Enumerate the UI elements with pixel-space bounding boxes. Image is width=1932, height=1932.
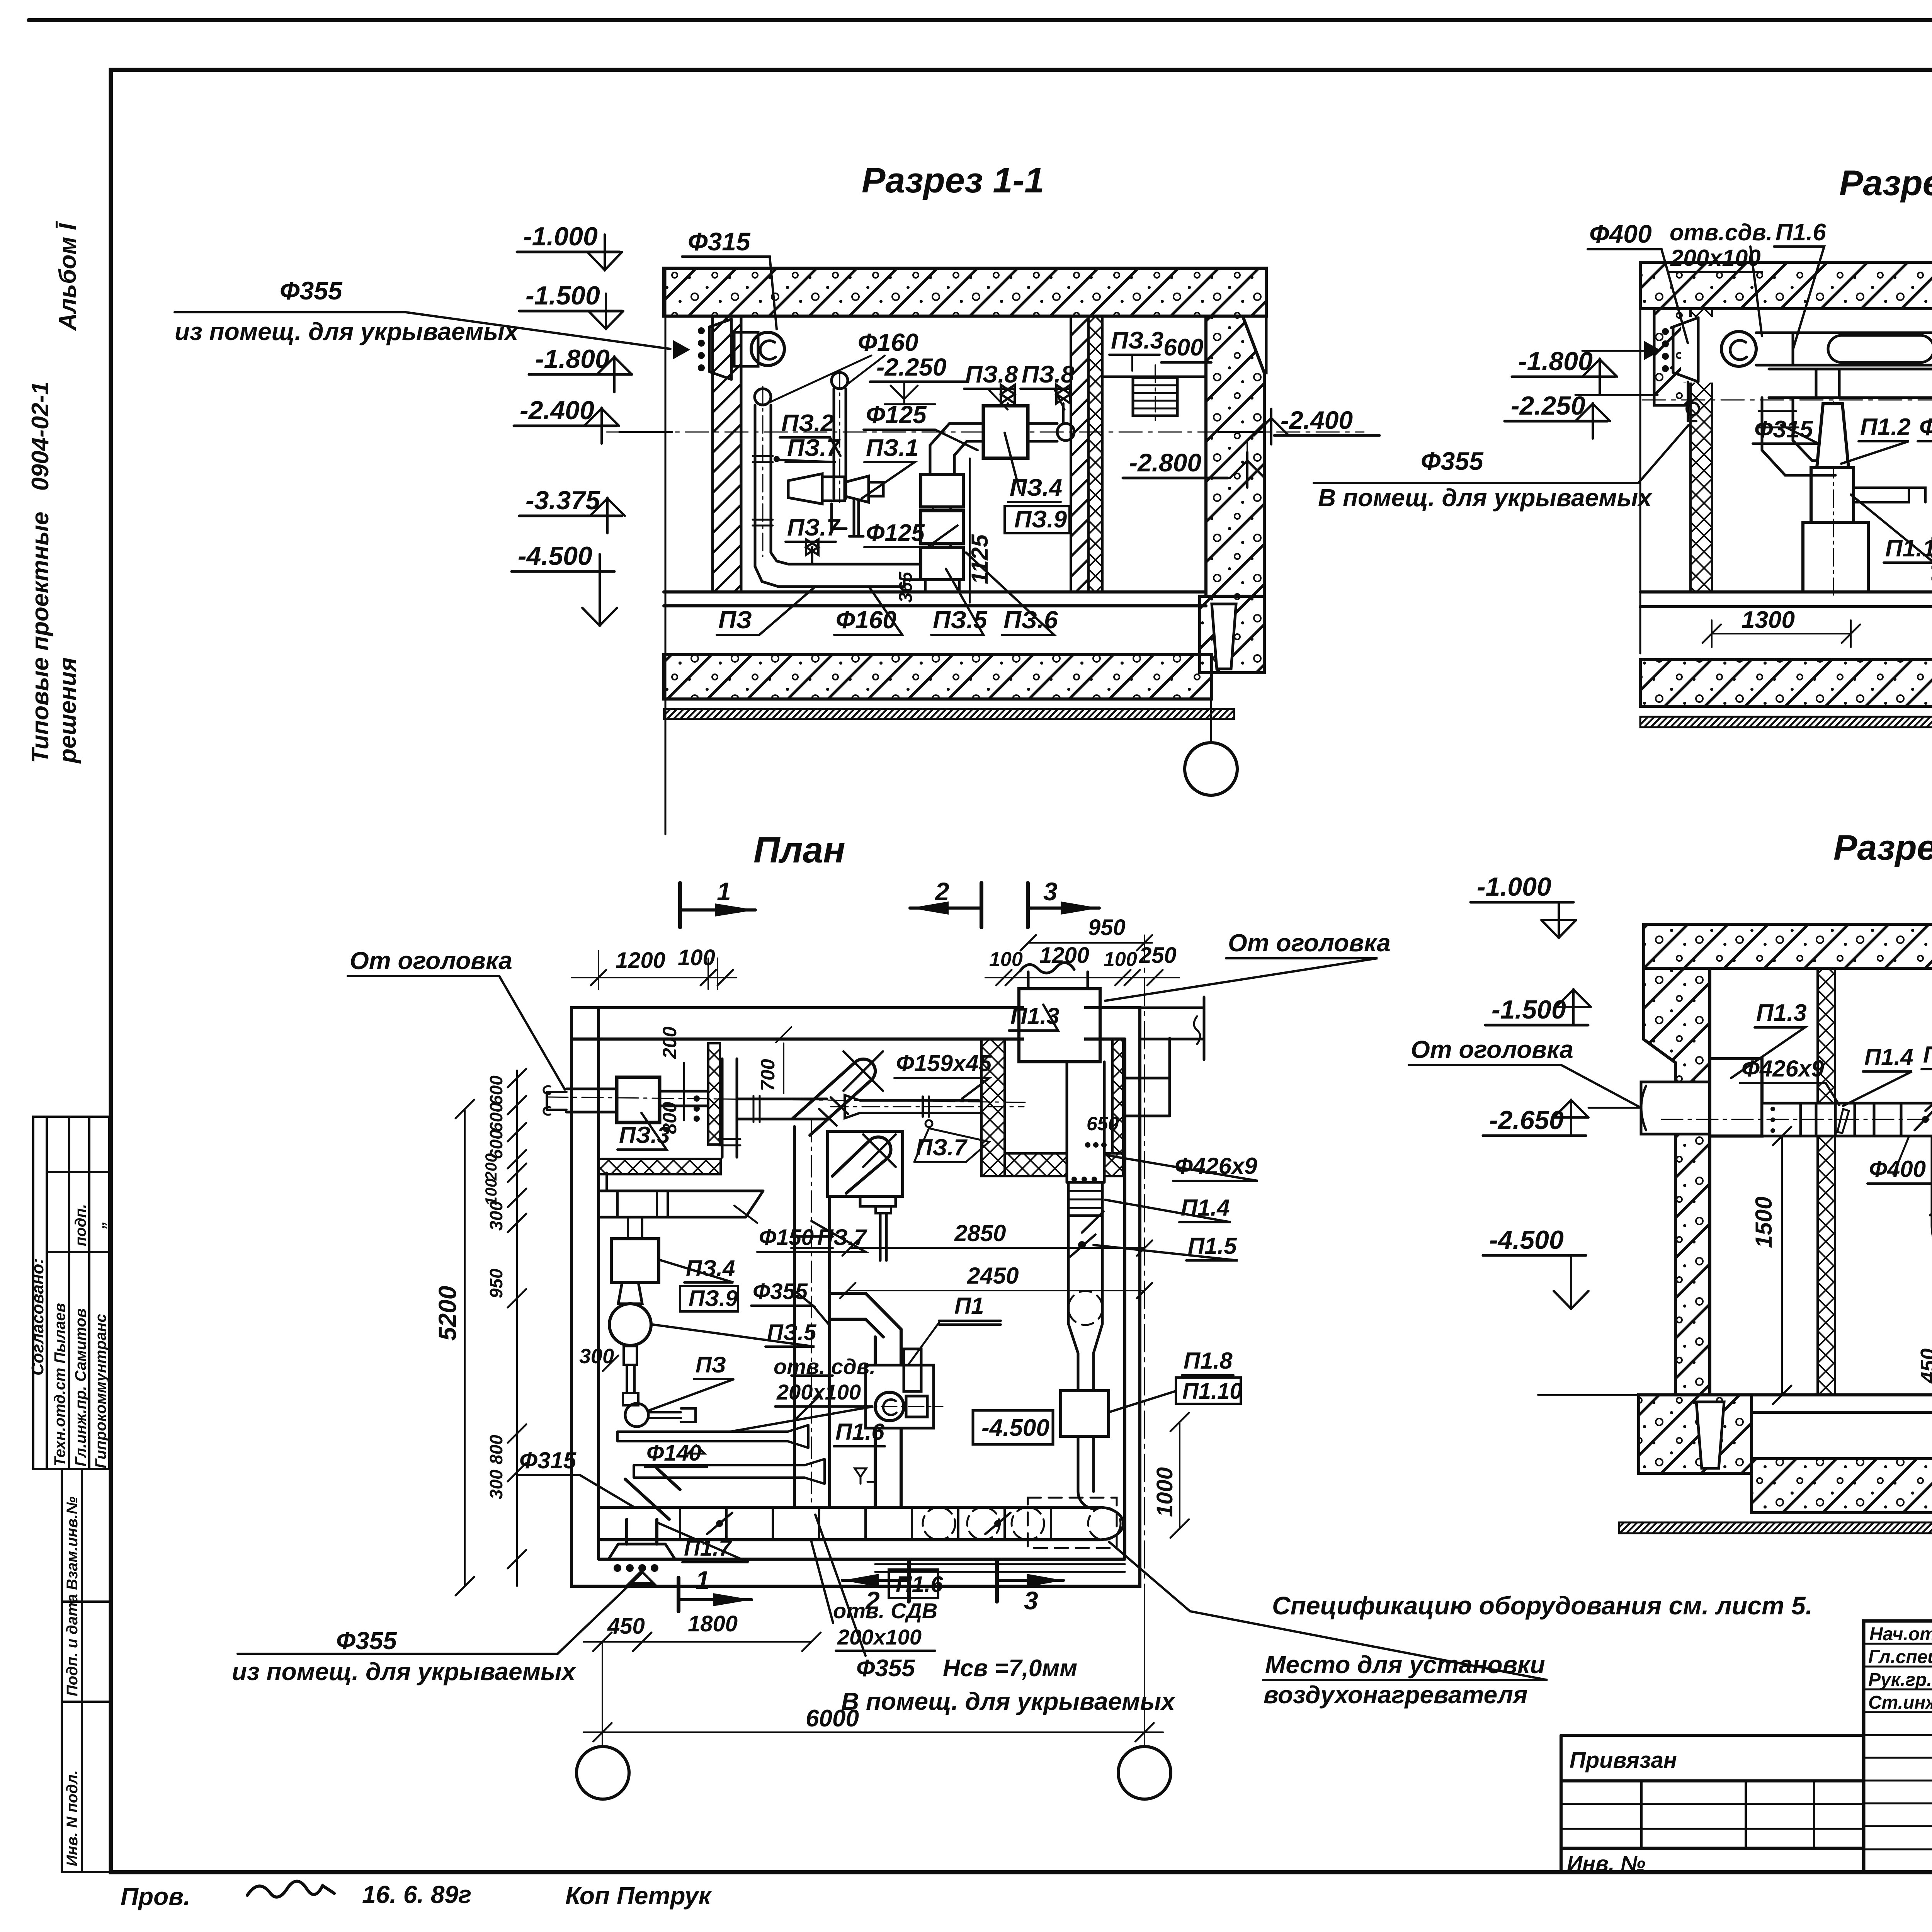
svg-text:Гипрокоммунтранс: Гипрокоммунтранс: [92, 1314, 109, 1468]
svg-text:П1.5: П1.5: [1923, 1042, 1932, 1068]
dim 365 vertical: [896, 571, 916, 603]
room floor lines: [1640, 592, 1932, 607]
label Ф140: [645, 1440, 707, 1467]
bottom label Ф160: [834, 587, 902, 635]
svg-text:Ф400: Ф400: [1589, 219, 1652, 248]
break squiggle top wall end: [1194, 1016, 1200, 1044]
svg-text:1800: 1800: [688, 1611, 738, 1636]
dim line top-right 100 1200 100 250: [985, 943, 1179, 985]
level -1.500 s33: [1485, 989, 1591, 1025]
П1.3 unit top right: [1019, 963, 1100, 1062]
label П1: [909, 1293, 1001, 1364]
svg-text:решения: решения: [54, 657, 81, 764]
svg-text:подп.: подп.: [72, 1204, 89, 1246]
top wall opening for head duct: [1024, 1004, 1084, 1043]
svg-text:-2.250: -2.250: [876, 353, 946, 381]
label П1.8 П1.10 plan: [1109, 1348, 1242, 1412]
svg-text:Ф400: Ф400: [1869, 1156, 1926, 1182]
vertical exhaust pipe 1: [753, 389, 889, 587]
svg-text:П1.4: П1.4: [1864, 1044, 1913, 1070]
bottom slab: [1640, 660, 1932, 706]
svg-text:Привязан: Привязан: [1570, 1748, 1677, 1773]
svg-text:Инв. №: Инв. №: [1567, 1851, 1645, 1876]
svg-text:Взам.инв.№: Взам.инв.№: [64, 1497, 81, 1590]
svg-text:Пров.: Пров.: [121, 1883, 190, 1910]
label ПЗ.9 boxed: [1005, 506, 1070, 533]
left boundary cut line: [665, 268, 667, 834]
svg-text:Ф160: Ф160: [836, 606, 896, 634]
intake louver: [674, 319, 731, 379]
svg-text:Ф160: Ф160: [858, 328, 918, 356]
svg-text:ПЗ.8: ПЗ.8: [1022, 361, 1075, 388]
svg-text:П1.6: П1.6: [896, 1572, 943, 1597]
svg-text:П1.7: П1.7: [684, 1536, 732, 1561]
svg-text:ПЗ.3: ПЗ.3: [1111, 327, 1163, 354]
svg-text:-1.800: -1.800: [535, 344, 610, 374]
svg-text:1200: 1200: [616, 948, 665, 973]
duct from stack to heater: [930, 423, 983, 474]
label Ф355 mid: [1918, 414, 1932, 441]
label От оголовка right: [1105, 929, 1391, 1001]
svg-text:200: 200: [482, 1153, 500, 1181]
svg-text:1125: 1125: [967, 534, 993, 584]
svg-text:П1.10: П1.10: [1182, 1379, 1242, 1404]
label отв.СДВ 200х100 bottom: [811, 1542, 937, 1651]
plan outer wall rect: [571, 1008, 1140, 1586]
svg-text:2: 2: [934, 877, 949, 906]
round duct section dashed: [1068, 1291, 1102, 1325]
valve ПЗ.8 left: [1001, 385, 1015, 406]
level -2.250: [870, 353, 968, 404]
svg-text:ПЗ: ПЗ: [718, 606, 752, 634]
main duct F355: [1756, 333, 1932, 396]
label ПЗ.8: [964, 361, 1018, 410]
label ПЗ.5 plan: [653, 1320, 816, 1347]
отв.сдв thin duct: [617, 1425, 808, 1454]
top-left partition vertical: [708, 1043, 720, 1145]
svg-text:ПЗ.7: ПЗ.7: [787, 514, 841, 541]
svg-text:-4.500: -4.500: [1489, 1225, 1564, 1255]
plan inner wall lines: [571, 1008, 1125, 1559]
label ПЗ.4 ПЗ.9 plan: [659, 1256, 738, 1311]
П1 unit assembly: [830, 1293, 943, 1507]
bottom duct run: [599, 1507, 1123, 1540]
svg-text:ПЗ.7: ПЗ.7: [787, 435, 841, 461]
svg-text:План: План: [753, 830, 845, 871]
svg-text:-2.800: -2.800: [1129, 448, 1201, 477]
label Ф150 ПЗ.7: [734, 1206, 867, 1252]
partition cross-hatched: [1818, 968, 1835, 1395]
svg-text:16. 6. 89г: 16. 6. 89г: [362, 1881, 471, 1908]
level -4.500: [512, 541, 617, 626]
label Ф355 из помещ bottom: [232, 1573, 641, 1685]
svg-text:0904-02-1: 0904-02-1: [27, 381, 54, 491]
Ф159х45 thin pipe: [831, 1095, 1024, 1127]
footing pit slot: [1696, 1402, 1724, 1468]
svg-text:ПЗ.4: ПЗ.4: [686, 1256, 735, 1281]
dim 1125 vertical: [1927, 485, 1932, 607]
main vertical duct Ф355: [791, 1121, 833, 1507]
label От оголовка left: [348, 947, 565, 1090]
valve slashes on ducts: [707, 1211, 1104, 1534]
svg-text:Место для установки: Место для установки: [1265, 1651, 1545, 1679]
section mark 1 bottom: [679, 1566, 752, 1611]
svg-text:950: 950: [486, 1269, 506, 1298]
svg-text:ПЗ.1: ПЗ.1: [866, 435, 918, 461]
svg-text:ПЗ.9: ПЗ.9: [689, 1286, 738, 1311]
svg-text:-1.000: -1.000: [523, 222, 598, 251]
svg-text:450: 450: [1917, 1349, 1932, 1384]
label Ф125 lower: [864, 520, 957, 547]
svg-text:П1.6: П1.6: [1776, 219, 1826, 246]
svg-text:-4.500: -4.500: [981, 1415, 1049, 1441]
svg-text:Согласовано:: Согласовано:: [28, 1258, 47, 1376]
label отв.сдв 200x100: [1669, 219, 1772, 336]
pipe heater to wall: [1028, 423, 1057, 441]
left boundary cut line: [1639, 262, 1641, 653]
svg-text:Нсв =7,0мм: Нсв =7,0мм: [943, 1655, 1077, 1682]
bottom dim 6000: [583, 1586, 1163, 1746]
end valve circle: [1057, 423, 1074, 440]
svg-text:Ст.инж.: Ст.инж.: [1868, 1692, 1932, 1713]
svg-text:из помещ. для укрываемых: из помещ. для укрываемых: [175, 318, 519, 345]
level -1.800 left: [1512, 347, 1652, 394]
bottom label ПЗ.6: [966, 553, 1058, 635]
dim 2850: [842, 1220, 1152, 1256]
ceiling slab: [1640, 262, 1932, 309]
svg-text:-1.500: -1.500: [1492, 995, 1566, 1024]
svg-text:800: 800: [486, 1435, 506, 1464]
dim 1300: [1702, 607, 1860, 647]
label Ф426х9: [1107, 1153, 1258, 1181]
svg-text:Ф140: Ф140: [646, 1440, 701, 1466]
label Ф160: [769, 328, 918, 403]
П1.8 П1.10 unit: [1061, 1391, 1109, 1436]
label П1.3 s33: [1731, 1000, 1807, 1078]
П1.5 duct with damper: [1068, 1216, 1102, 1291]
svg-text:3: 3: [1024, 1586, 1038, 1615]
dim line top-right 950: [1020, 915, 1152, 951]
П1.4 grille section: [1068, 1182, 1102, 1216]
heater ПЗ.4: [983, 406, 1028, 458]
svg-text:отв. сдв.: отв. сдв.: [774, 1354, 876, 1379]
ПЗ vertical duct beside partition: [719, 1059, 740, 1157]
level -2.400 left: [514, 396, 672, 444]
air regulator ПЗ.1 assembly: [788, 474, 883, 536]
grille room ceiling step: [1102, 376, 1206, 378]
dim 1125 vertical: [967, 458, 993, 603]
level -2.400 right: [1218, 406, 1379, 444]
top-left partition cross-hatched: [599, 1159, 721, 1174]
room floor lines: [664, 592, 1206, 606]
top wall cantilever: [1140, 997, 1204, 1060]
intake louver: [1645, 317, 1716, 421]
label Ф426х9 s33: [1740, 1056, 1839, 1105]
left sidebar table lower: [62, 1469, 111, 1872]
lower loop ducts: [1930, 1136, 1932, 1260]
fan axis dash lines: [1833, 402, 1932, 595]
svg-text:1300: 1300: [1742, 607, 1795, 633]
labels Ф400 Ф250 mid: [1867, 1137, 1932, 1229]
top-right partition horizontal segs: [1005, 1153, 1067, 1176]
partition insulation strip: [1088, 316, 1102, 592]
left wall with haunch: [1644, 968, 1710, 1395]
svg-text:800: 800: [659, 1102, 680, 1134]
label Ф400: [1588, 219, 1688, 343]
label П1.6: [1774, 219, 1826, 350]
label Ф159х45: [895, 1050, 992, 1099]
dim 1500 vertical: [1751, 1127, 1791, 1404]
ceiling slab: [1644, 924, 1932, 968]
label отв.сдв 200х100 upper: [730, 1354, 876, 1432]
svg-text:Инв. N подл.: Инв. N подл.: [64, 1770, 81, 1866]
П2 fan unit square: [828, 1131, 903, 1260]
label П1.3 plan: [1009, 1003, 1060, 1031]
section mark 1 top: [680, 877, 755, 927]
label Ф315: [1753, 416, 1818, 444]
svg-text:Ф315: Ф315: [1754, 416, 1813, 443]
svg-text:Гл.спец.: Гл.спец.: [1868, 1647, 1932, 1667]
svg-text:Разрез 2-2: Разрез 2-2: [1839, 163, 1932, 203]
bottom thin screed band: [1619, 1522, 1932, 1533]
svg-text:2450: 2450: [967, 1263, 1019, 1289]
svg-text:1125: 1125: [1927, 537, 1932, 587]
bottom slab: [1752, 1459, 1932, 1513]
level -2.650 s33: [1483, 1100, 1641, 1136]
label Ф355 в помещ: [1314, 425, 1689, 512]
labels П1.4 П1.5 П1.9 row: [1843, 1044, 1913, 1106]
dashed service rect: [1028, 1498, 1117, 1548]
label П1.5 plan: [1094, 1233, 1238, 1260]
svg-text:200х100: 200х100: [837, 1625, 922, 1649]
level -1.000: [517, 222, 622, 270]
svg-text:ПЗ.9: ПЗ.9: [1014, 506, 1067, 533]
label Ф355 Нсв bottom: [815, 1515, 1176, 1715]
section mark 3 bottom: [997, 1561, 1063, 1615]
От оголовка intake through wall: [1641, 1082, 1710, 1134]
svg-text:Рук.гр.: Рук.гр.: [1868, 1670, 1932, 1690]
level -1.000 s33: [1471, 872, 1576, 938]
svg-text:200х100: 200х100: [1670, 245, 1761, 271]
bottom dims 450 1800: [583, 1611, 821, 1651]
svg-text:В помещ. для укрываемых: В помещ. для укрываемых: [1318, 484, 1653, 512]
svg-text:Ф355: Ф355: [336, 1627, 397, 1655]
label ПЗ.7 lower: [786, 514, 841, 542]
label ПЗ.2: [780, 410, 840, 456]
svg-text:Ф315: Ф315: [519, 1447, 577, 1473]
section mark 2 bottom: [842, 1561, 909, 1615]
svg-text:1000: 1000: [1152, 1467, 1177, 1517]
svg-text:Ф355: Ф355: [280, 276, 343, 305]
dim 1000 vertical right: [1152, 1413, 1189, 1538]
bottom thin screed band: [664, 709, 1234, 719]
label Ф355 из помещ.: [175, 276, 670, 349]
svg-text:Альбом Ī: Альбом Ī: [54, 221, 81, 331]
svg-text:100: 100: [678, 945, 715, 970]
svg-text:450: 450: [607, 1614, 645, 1639]
duct unit to partition: [660, 1091, 707, 1122]
left dim chain 5200: [434, 1100, 474, 1595]
label Ф315 plan: [518, 1447, 634, 1507]
svg-text:700: 700: [757, 1059, 779, 1091]
label ПЗ.7 near pipe: [914, 1128, 989, 1162]
svg-text:-3.375: -3.375: [526, 486, 600, 515]
middle partition: [1071, 316, 1088, 592]
svg-text:-2.650: -2.650: [1489, 1105, 1564, 1135]
svg-text:-2.400: -2.400: [1281, 406, 1353, 434]
transition cone: [1068, 1324, 1102, 1391]
lower thin rail: [875, 1564, 1125, 1572]
svg-text:950: 950: [1088, 915, 1126, 940]
fan at ceiling: [1721, 332, 1756, 366]
svg-text:Ф125: Ф125: [866, 520, 925, 546]
left margin rotated titles: [27, 221, 81, 764]
label ПЗ.7: [777, 435, 841, 462]
horizontal duct run: [1762, 1103, 1932, 1136]
horizontal duct to diagonal: [737, 1096, 827, 1122]
svg-text:Коп Петрук: Коп Петрук: [565, 1882, 712, 1910]
column axis right: [1144, 935, 1145, 1746]
label ПЗ.4: [1005, 433, 1062, 502]
horizontal centerline: [607, 432, 1364, 433]
svg-text:Разрез 3-3: Разрез 3-3: [1833, 828, 1932, 867]
svg-text:Подп. и дата: Подп. и дата: [64, 1594, 81, 1696]
ПЗ.3 silencer unit: [617, 1077, 660, 1122]
valve on bottom duct: [806, 539, 818, 564]
Ф426х9 duct down: [1067, 1062, 1104, 1182]
label 650: [1085, 1113, 1119, 1148]
svg-text:Ф355: Ф355: [856, 1655, 915, 1682]
labels: От оголовка: [1409, 1036, 1641, 1108]
bottom label ПЗ: [717, 587, 815, 635]
level -2.250 left: [1505, 391, 1658, 439]
label Ф355 plan: [751, 1279, 830, 1325]
svg-text:Типовые проектные: Типовые проектные: [27, 512, 54, 763]
column axis line and bubble: [1185, 673, 1237, 795]
П1.3 unit: [1710, 1059, 1762, 1136]
rotated dims 200 800 700 top-left: [659, 1026, 791, 1134]
svg-text:П1.6: П1.6: [835, 1419, 884, 1445]
svg-text:1500: 1500: [1751, 1197, 1777, 1248]
label ПЗ plan: [649, 1352, 734, 1410]
svg-text:П1.1: П1.1: [1885, 535, 1932, 562]
left string: Ф150 duct: [599, 1173, 763, 1217]
svg-text:Ф159х45: Ф159х45: [896, 1050, 992, 1076]
svg-text:из помещ. для укрываемых: из помещ. для укрываемых: [232, 1658, 577, 1685]
dim 2450: [840, 1263, 1152, 1298]
ПЗ.3 intake duct through wall: [544, 1086, 617, 1115]
note место для установки: [1109, 1542, 1548, 1709]
column bubble right: [1118, 1747, 1171, 1799]
right wall: [1206, 316, 1264, 596]
svg-text:300: 300: [486, 1201, 506, 1231]
wall grille ПЗ.3: [1133, 367, 1177, 425]
bottom thin screed band: [1640, 717, 1932, 727]
label П1.2: [1841, 414, 1911, 464]
bottom slab: [664, 655, 1212, 699]
svg-text:-1.000: -1.000: [1477, 872, 1551, 901]
bottom-left elbow and bell П1.7: [609, 1468, 680, 1583]
staff table: [1864, 1621, 1932, 1872]
fan ПЗ: [734, 332, 784, 366]
left upper wall block: [1654, 309, 1690, 405]
label ПЗ.3 and 600: [1109, 327, 1211, 379]
svg-text:1: 1: [717, 877, 731, 906]
svg-text:П1.8: П1.8: [1184, 1348, 1233, 1374]
svg-text:отв.сдв.: отв.сдв.: [1670, 219, 1772, 245]
level -3.375: [519, 486, 625, 533]
svg-text:ПЗ.8: ПЗ.8: [965, 361, 1018, 388]
svg-text:1: 1: [696, 1566, 710, 1594]
Ф140 thin duct: [634, 1459, 825, 1484]
svg-text:Техн.отд.ст Пылаев: Техн.отд.ст Пылаев: [51, 1303, 68, 1466]
left wall: [713, 316, 741, 592]
svg-text:Ф355: Ф355: [753, 1279, 808, 1304]
top-right partition vertical: [981, 1039, 1005, 1176]
svg-text:Ф125: Ф125: [866, 401, 927, 429]
svg-text:П1.3: П1.3: [1756, 1000, 1807, 1026]
svg-text:600: 600: [486, 1102, 506, 1132]
svg-text:Ф426х9: Ф426х9: [1742, 1056, 1824, 1082]
label ПЗ.8 b: [1020, 361, 1075, 410]
svg-text:-4.500: -4.500: [518, 541, 592, 571]
left vertical duct with elbows: [1757, 398, 1835, 475]
level -2.800: [1123, 440, 1265, 488]
svg-text:От оголовка: От оголовка: [1228, 929, 1391, 957]
svg-text:воздухонагревателя: воздухонагревателя: [1264, 1681, 1527, 1709]
label ПЗ.3 plan: [617, 1113, 670, 1150]
svg-text:3: 3: [1043, 877, 1058, 906]
vertical pipe 2: [832, 372, 848, 498]
svg-text:200: 200: [659, 1026, 680, 1059]
svg-text:Разрез 1-1: Разрез 1-1: [862, 161, 1044, 200]
column bubble left: [577, 1747, 629, 1799]
svg-text:Гл.инж.пр. Самитов: Гл.инж.пр. Самитов: [72, 1308, 89, 1466]
left wall footing: [1639, 1395, 1752, 1473]
left sidebar table upper: [28, 1117, 109, 1469]
svg-text:В помещ. для укрываемых: В помещ. для укрываемых: [841, 1687, 1176, 1715]
left dim chain detail: [482, 1069, 526, 1586]
axis dash-dot through ПЗ.3: [547, 1097, 1028, 1102]
svg-text:От оголовка: От оголовка: [350, 947, 512, 975]
svg-text:Ф150: Ф150: [759, 1225, 814, 1250]
valve ПЗ.8 right: [1056, 385, 1070, 423]
diagonal duct with round cap: [793, 1051, 883, 1135]
label ПЗ.1: [862, 435, 918, 498]
svg-text:Ф355: Ф355: [1421, 447, 1484, 475]
ПЗ.4 ПЗ.9 box plan: [611, 1239, 659, 1282]
svg-text:2850: 2850: [954, 1220, 1006, 1246]
bottom label ПЗ.5: [931, 569, 988, 635]
svg-text:От оголовка: От оголовка: [1411, 1036, 1573, 1063]
svg-text:ПЗ: ПЗ: [696, 1352, 726, 1378]
label Ф315: [682, 227, 777, 329]
filter stack ПЗ.5 ПЗ.6: [889, 474, 963, 592]
section mark 3 top: [1028, 877, 1099, 927]
svg-text:200х100: 200х100: [776, 1380, 861, 1404]
svg-text:600: 600: [1163, 334, 1203, 361]
alcove shaft lines: [1123, 1038, 1170, 1116]
label Ф125: [864, 401, 978, 450]
svg-text:100: 100: [1104, 948, 1137, 971]
right wall slab step: [1243, 316, 1266, 373]
dim 450 vertical: [1917, 1301, 1932, 1404]
duct to bottom elbow: [1078, 1436, 1095, 1509]
level -1.800: [529, 344, 632, 392]
floor lines: [1639, 1395, 1932, 1412]
svg-text:100: 100: [989, 948, 1023, 971]
axis dash-dot: [1662, 1119, 1932, 1120]
